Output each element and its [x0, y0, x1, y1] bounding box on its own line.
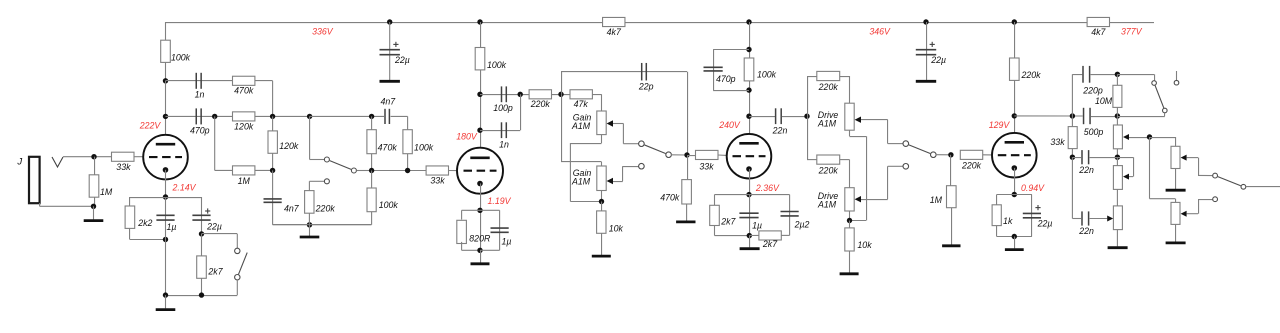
svg-text:1µ: 1µ — [502, 236, 512, 246]
svg-text:22n: 22n — [772, 126, 788, 136]
svg-text:470k: 470k — [660, 193, 680, 203]
svg-text:33k: 33k — [116, 162, 131, 172]
svg-text:100p: 100p — [493, 103, 513, 113]
svg-text:4k7: 4k7 — [607, 27, 622, 37]
svg-text:100k: 100k — [757, 70, 777, 80]
svg-text:470p: 470p — [190, 125, 210, 135]
svg-text:1M: 1M — [930, 195, 943, 205]
svg-text:33k: 33k — [430, 176, 445, 186]
svg-text:180V: 180V — [456, 132, 478, 142]
svg-text:10M: 10M — [1095, 96, 1113, 106]
svg-text:22µ: 22µ — [206, 222, 222, 232]
svg-text:1µ: 1µ — [167, 222, 177, 232]
svg-text:2.36V: 2.36V — [755, 183, 780, 193]
svg-text:240V: 240V — [718, 120, 741, 130]
svg-text:22µ: 22µ — [394, 55, 410, 65]
svg-text:346V: 346V — [869, 26, 891, 36]
svg-text:100k: 100k — [414, 142, 434, 152]
svg-text:22n: 22n — [1078, 226, 1094, 236]
svg-text:A1M: A1M — [571, 177, 591, 187]
svg-text:22p: 22p — [638, 82, 654, 92]
svg-text:A1M: A1M — [817, 118, 837, 128]
svg-text:470k: 470k — [378, 142, 398, 152]
svg-text:2.14V: 2.14V — [172, 183, 197, 193]
svg-text:220k: 220k — [1020, 70, 1041, 80]
svg-text:220k: 220k — [961, 160, 982, 170]
svg-text:4n7: 4n7 — [380, 96, 396, 106]
svg-text:4k7: 4k7 — [1091, 27, 1106, 37]
svg-text:2k7: 2k7 — [207, 267, 223, 277]
svg-text:100k: 100k — [379, 200, 399, 210]
svg-text:1k: 1k — [1003, 216, 1013, 226]
svg-text:4n7: 4n7 — [284, 204, 300, 214]
svg-text:33k: 33k — [699, 162, 714, 172]
svg-text:220k: 220k — [315, 203, 336, 213]
svg-text:222V: 222V — [139, 120, 162, 130]
svg-text:120k: 120k — [234, 122, 254, 132]
svg-text:22µ: 22µ — [930, 55, 946, 65]
svg-text:2µ2: 2µ2 — [794, 220, 810, 230]
svg-text:220k: 220k — [818, 82, 839, 92]
svg-text:100k: 100k — [171, 53, 191, 63]
svg-text:1µ: 1µ — [752, 221, 762, 231]
svg-text:0.94V: 0.94V — [1021, 183, 1045, 193]
svg-text:2k7: 2k7 — [720, 216, 736, 226]
svg-text:1n: 1n — [499, 139, 509, 149]
svg-text:A1M: A1M — [571, 121, 591, 131]
svg-text:470p: 470p — [716, 74, 736, 84]
svg-text:10k: 10k — [857, 240, 872, 250]
svg-text:500p: 500p — [1084, 127, 1104, 137]
svg-text:377V: 377V — [1121, 27, 1143, 37]
svg-text:2k7: 2k7 — [762, 239, 778, 249]
svg-text:2k2: 2k2 — [137, 218, 152, 228]
svg-text:470k: 470k — [234, 86, 254, 96]
svg-text:1n: 1n — [195, 90, 205, 100]
svg-text:47k: 47k — [574, 99, 589, 109]
svg-text:22n: 22n — [1078, 165, 1094, 175]
svg-text:220k: 220k — [530, 99, 551, 109]
svg-text:22µ: 22µ — [1037, 219, 1053, 229]
svg-text:33k: 33k — [1050, 137, 1065, 147]
svg-text:336V: 336V — [312, 27, 334, 37]
svg-text:120k: 120k — [279, 141, 299, 151]
svg-text:100k: 100k — [487, 60, 507, 70]
svg-text:129V: 129V — [989, 120, 1011, 130]
svg-text:1M: 1M — [238, 176, 251, 186]
svg-text:A1M: A1M — [817, 199, 837, 209]
svg-text:1.19V: 1.19V — [488, 196, 512, 206]
svg-text:220k: 220k — [818, 166, 839, 176]
svg-text:10k: 10k — [609, 224, 624, 234]
svg-text:J: J — [16, 156, 22, 167]
svg-text:220p: 220p — [1082, 86, 1103, 96]
svg-text:1M: 1M — [100, 187, 113, 197]
svg-text:820R: 820R — [469, 234, 491, 244]
